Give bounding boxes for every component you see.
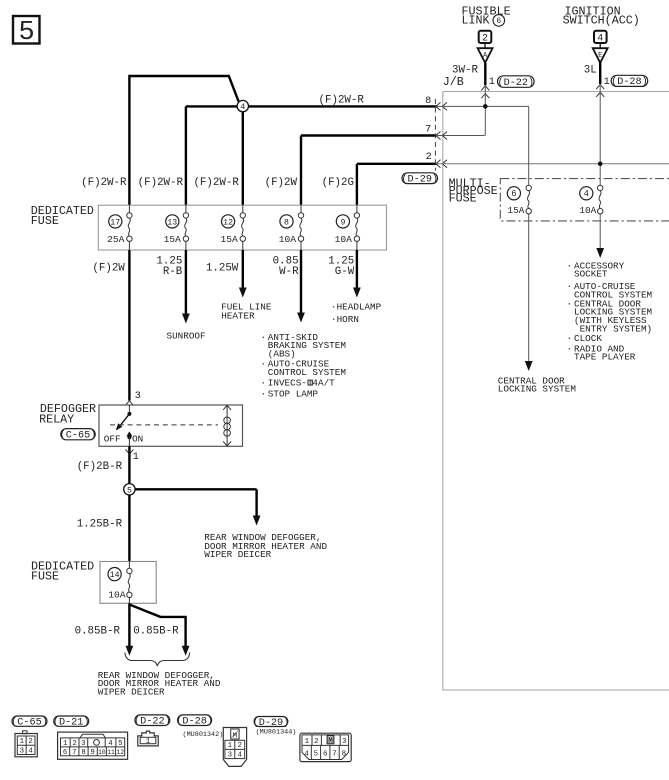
fuse 14 circle: [108, 568, 121, 581]
svg-text:E: E: [598, 52, 602, 60]
connector pinout oval D-21: [54, 716, 89, 726]
svg-text:1: 1: [63, 740, 68, 748]
svg-text:6: 6: [511, 189, 516, 199]
fuse 17 element 25A: [127, 213, 132, 218]
relay switch pivot: [127, 412, 131, 416]
svg-text:6: 6: [323, 751, 327, 759]
svg-text:FUSE: FUSE: [31, 570, 59, 584]
svg-text:(F)2W-R: (F)2W-R: [319, 94, 365, 106]
svg-text:WIPER DEICER: WIPER DEICER: [204, 549, 271, 560]
INVECS-II glyph: [308, 380, 313, 386]
svg-text:1: 1: [489, 77, 495, 88]
dedicated fuse box (bottom): [100, 562, 156, 604]
fuse 17 circle: [109, 215, 122, 228]
svg-text:M: M: [328, 738, 332, 746]
svg-text:1: 1: [20, 738, 25, 746]
svg-text:10: 10: [98, 749, 106, 756]
wire to J/B pin 2: [357, 163, 437, 165]
fuse 8 bottom stub: [300, 241, 302, 250]
svg-text:CONTROL SYSTEM: CONTROL SYSTEM: [268, 367, 346, 378]
wire fuse 8 to ABS etc: [300, 250, 302, 314]
arrow to ABS etc: [297, 313, 305, 323]
svg-text:·: ·: [567, 281, 573, 292]
arrow to fuel line heater: [239, 288, 247, 298]
svg-text:SWITCH(ACC): SWITCH(ACC): [563, 13, 640, 27]
wire fuse 14 down left branch: [128, 603, 130, 647]
svg-text:J/B: J/B: [443, 75, 464, 89]
connector oval D-22: [498, 76, 535, 88]
junction block J/B box: [443, 92, 669, 691]
svg-text:9: 9: [340, 218, 345, 227]
svg-text:3: 3: [342, 738, 346, 746]
fuse 8 circle: [280, 215, 293, 228]
svg-text:10A: 10A: [108, 590, 126, 601]
svg-text:7: 7: [332, 751, 336, 759]
svg-text:R-B: R-B: [163, 266, 183, 278]
svg-text:8: 8: [284, 218, 289, 227]
coil mark bottom: [223, 441, 231, 446]
dashed connector D-29 boundary line: [434, 99, 436, 171]
arrow to central door locking system: [525, 361, 533, 371]
fuse 9 bottom stub: [356, 241, 358, 250]
svg-text:·HORN: ·HORN: [331, 314, 359, 325]
svg-text:15A: 15A: [508, 205, 525, 216]
wire down to fuse 6: [528, 106, 530, 185]
connector pinout oval D-28: [178, 715, 212, 726]
svg-text:ON: ON: [132, 433, 143, 444]
svg-text:SOCKET: SOCKET: [574, 269, 608, 280]
arrow to sunroof: [182, 314, 190, 324]
arrow right to rear window defogger: [182, 646, 190, 656]
connector D-21 pinout: [58, 732, 128, 759]
connector C-65 pinout: [23, 731, 27, 734]
svg-text:11: 11: [107, 749, 115, 756]
svg-text:10A: 10A: [279, 234, 297, 245]
svg-text:3: 3: [81, 740, 85, 748]
svg-text:6: 6: [496, 17, 501, 26]
multi-purpose fuse dash-dot box: [500, 179, 669, 221]
wire branch down: [255, 489, 257, 517]
svg-text:2: 2: [72, 740, 76, 748]
wire from fuse 13 up to junction 4: [185, 106, 187, 205]
arrow to headlamp and horn: [353, 288, 361, 298]
svg-text:·: ·: [261, 332, 267, 343]
connector oval C-65: [61, 429, 95, 440]
svg-text:(F)2W-R: (F)2W-R: [138, 177, 184, 189]
wire inside J/B from D-22 down: [484, 87, 486, 136]
entry mark relay pin 3: [125, 401, 133, 406]
svg-text:17: 17: [110, 218, 120, 227]
svg-text:RELAY: RELAY: [39, 412, 74, 426]
fuse 8 element 10A: [298, 213, 303, 218]
fuse 12 bottom stub: [242, 241, 244, 250]
svg-text:·: ·: [261, 378, 267, 389]
exit mark relay pin 1: [125, 449, 133, 454]
fuse 13 top stub: [185, 205, 187, 213]
svg-text:0.85B-R: 0.85B-R: [133, 626, 179, 638]
connector oval D-29 at J/B: [402, 173, 438, 184]
fuse 13 bottom stub: [185, 241, 187, 250]
wire junction 4 down to fuse 12: [242, 112, 244, 206]
relay internal stub top: [128, 405, 130, 414]
svg-text:8: 8: [81, 749, 85, 757]
svg-text:3: 3: [228, 751, 232, 759]
junction dot pin2/D-28: [598, 162, 603, 167]
svg-text:·: ·: [567, 343, 573, 354]
svg-text:4: 4: [304, 751, 309, 759]
wire fuse 17 to defogger relay: [128, 250, 130, 401]
svg-text:M: M: [233, 732, 237, 740]
connector D-28 pinout: [223, 728, 246, 767]
wire inside J/B from D-28 to fuse 4: [599, 86, 601, 185]
arrow left to rear window defogger: [126, 646, 134, 656]
entry mark pin 7 outer: [436, 132, 441, 140]
wire from fuse 17 up and across to junction 4: [129, 76, 238, 206]
svg-text:1: 1: [604, 77, 610, 88]
connector D-22 pinout: [138, 731, 158, 746]
svg-text:2: 2: [314, 738, 318, 746]
svg-text:1.25W: 1.25W: [206, 262, 239, 274]
svg-text:INVECS- 4A/T: INVECS- 4A/T: [268, 378, 335, 389]
svg-text:13: 13: [167, 218, 177, 227]
bus wire pin8 to fuse 6 inside J/B: [437, 105, 529, 107]
relay coil: [226, 405, 228, 446]
svg-text:(MU801342): (MU801342): [183, 731, 224, 739]
svg-text:2: 2: [426, 152, 432, 163]
wire fuse 4 to accessory loads: [599, 214, 601, 249]
arrow to accessory loads: [596, 248, 604, 258]
svg-text:(F)2W: (F)2W: [265, 177, 298, 189]
svg-text:FUSE: FUSE: [449, 192, 477, 206]
svg-text:1: 1: [305, 738, 310, 746]
page number box 5: [13, 16, 40, 44]
wire fuse 6 to central door locking system: [528, 214, 530, 362]
svg-text:14: 14: [110, 571, 120, 580]
fuse 12 circle: [222, 215, 235, 228]
wire junction4 left arm: [186, 105, 237, 107]
svg-text:(D-29): (D-29): [253, 717, 290, 729]
relay switch blade arrowhead: [116, 423, 123, 430]
svg-text:(D-21): (D-21): [53, 717, 90, 729]
svg-text:10A: 10A: [579, 205, 596, 216]
svg-text:(F)2W-R: (F)2W-R: [81, 177, 127, 189]
fuse 9 element 10A: [354, 213, 359, 218]
entry mark D-28 outer: [596, 85, 604, 90]
svg-text:FUSE: FUSE: [31, 214, 59, 228]
svg-text:G-W: G-W: [335, 266, 355, 278]
wire from fuse 8 up: [300, 136, 302, 206]
wire 3W-R from triangle A to J/B: [484, 63, 486, 85]
svg-text:4: 4: [584, 189, 589, 199]
svg-text:(F)2B-R: (F)2B-R: [77, 461, 123, 473]
fuse 12 element 15A: [240, 213, 245, 218]
svg-text:·: ·: [567, 260, 573, 271]
entry mark pin 8 outer: [436, 102, 441, 110]
entry mark pin 7 inner: [442, 132, 447, 140]
svg-text:9: 9: [91, 749, 95, 757]
svg-text:TAPE PLAYER: TAPE PLAYER: [574, 352, 636, 363]
connector pinout oval D-22: [135, 715, 170, 726]
triangle terminal E: [593, 48, 608, 63]
svg-text:4: 4: [237, 751, 242, 759]
fuse 14 bottom stub: [128, 598, 130, 604]
defogger relay box: [99, 405, 243, 446]
svg-text:6: 6: [63, 749, 67, 757]
entry mark pin 8 inner: [442, 102, 447, 110]
svg-text:W-R: W-R: [279, 266, 299, 278]
svg-text:2: 2: [28, 738, 32, 746]
entry mark D-22 outer: [481, 86, 489, 91]
svg-text:12: 12: [223, 218, 233, 227]
svg-text:(D-29): (D-29): [401, 174, 438, 186]
junction dot pin8/D-22: [483, 104, 488, 109]
relay switch blade: [117, 414, 129, 430]
entry mark pin 2 inner: [442, 160, 447, 168]
svg-text:0.85B-R: 0.85B-R: [75, 626, 121, 638]
svg-text:5: 5: [314, 751, 318, 759]
fuse 14 top stub: [128, 562, 130, 569]
svg-text:STOP LAMP: STOP LAMP: [268, 389, 319, 400]
svg-text:7: 7: [425, 124, 431, 135]
svg-text:3: 3: [135, 391, 141, 402]
fuse 9 circle: [336, 215, 349, 228]
fuse 13 element 15A: [183, 213, 188, 218]
svg-text:4: 4: [28, 747, 33, 755]
svg-text:12: 12: [116, 749, 124, 756]
svg-text:OFF: OFF: [104, 433, 121, 444]
wire from fuse 9 up: [356, 164, 358, 206]
junction circle 5: [124, 484, 135, 495]
fuse 13 circle: [166, 215, 179, 228]
fuse 14 element 10A: [127, 568, 132, 573]
wire junction 5 branch right: [135, 488, 257, 490]
connector box 2 (fusible link): [479, 31, 492, 43]
fuse 17 top stub: [128, 205, 130, 213]
svg-text:(F)2W-R: (F)2W-R: [193, 177, 239, 189]
wire fuse 13 to sunroof: [185, 250, 187, 315]
svg-text:2: 2: [237, 742, 241, 750]
connector D-29 pinout: [300, 733, 351, 761]
fuse 6 element 15A: [526, 185, 531, 190]
wire box4 to triangle E: [599, 43, 601, 48]
svg-text:LOCKING SYSTEM: LOCKING SYSTEM: [498, 384, 576, 395]
fuse 4 circle in J/B: [580, 187, 593, 200]
svg-text:8: 8: [425, 96, 431, 107]
svg-text:1: 1: [133, 452, 139, 463]
fuse 4 element 10A: [598, 185, 603, 190]
connector pinout oval D-29: [254, 717, 288, 727]
svg-text:·: ·: [261, 389, 267, 400]
coil mark top: [223, 405, 231, 410]
svg-text:·HEADLAMP: ·HEADLAMP: [331, 301, 382, 312]
svg-text:(C-65): (C-65): [11, 717, 48, 729]
wire fuse 14 right branch: [129, 605, 185, 648]
arrow to rear window defogger (upper): [253, 516, 261, 526]
svg-text:4: 4: [240, 103, 245, 112]
svg-text:·: ·: [567, 298, 573, 309]
svg-text:15A: 15A: [221, 234, 239, 245]
dedicated fuse box (top): [98, 205, 386, 250]
svg-text:(C-65): (C-65): [60, 430, 97, 442]
svg-text:5: 5: [18, 18, 34, 48]
svg-text:WIPER DEICER: WIPER DEICER: [98, 687, 165, 698]
svg-text:25A: 25A: [107, 234, 125, 245]
svg-text:(F)2W: (F)2W: [92, 262, 125, 274]
wire to J/B pin 7: [301, 134, 437, 136]
wire fuse 12 to fuel line heater: [242, 250, 244, 289]
svg-text:5: 5: [127, 486, 132, 495]
svg-text:7: 7: [72, 749, 76, 757]
triangle terminal A: [478, 48, 493, 63]
svg-text:(D-28): (D-28): [611, 76, 648, 88]
svg-text:LINK: LINK: [462, 13, 490, 27]
svg-text:15A: 15A: [164, 234, 182, 245]
fuse 6 circle in J/B: [507, 187, 520, 200]
connector box 4 (ignition switch): [594, 31, 607, 43]
wire junction 4 to J/B pin 8: [249, 105, 437, 107]
svg-text:1: 1: [228, 742, 233, 750]
wire 3L from triangle E to J/B: [599, 62, 601, 84]
fuse 8 top stub: [300, 205, 302, 213]
relay internal stub bottom: [128, 437, 130, 446]
svg-text:4: 4: [108, 740, 113, 748]
fuse 12 top stub: [242, 205, 244, 213]
bus wire pin2 across J/B: [437, 163, 669, 165]
svg-text:(D-22): (D-22): [134, 716, 171, 728]
wire fuse 9 to headlamp/horn: [356, 250, 358, 289]
entry mark D-22 inner: [481, 94, 489, 99]
svg-text:3: 3: [20, 747, 24, 755]
svg-text:(MU801344): (MU801344): [256, 729, 297, 737]
relay ON contact: [126, 431, 132, 436]
svg-text:HEATER: HEATER: [221, 311, 255, 322]
wire junction 5 down to dedicated fuse 14: [128, 495, 130, 562]
entry mark D-28 inner: [596, 92, 604, 97]
wire box2 to triangle A: [484, 43, 486, 48]
svg-text:(D-28): (D-28): [176, 716, 213, 728]
relay dashed link: [110, 424, 218, 426]
circled 6 of fusible link: [493, 15, 505, 27]
bus wire pin7 inside J/B: [437, 135, 485, 137]
junction circle 4: [237, 100, 248, 111]
svg-text:1.25B-R: 1.25B-R: [77, 519, 123, 531]
under-brace: [125, 653, 190, 666]
svg-text:SUNROOF: SUNROOF: [167, 331, 206, 342]
svg-text:5: 5: [118, 740, 122, 748]
svg-text:8: 8: [342, 751, 346, 759]
svg-text:10A: 10A: [335, 234, 353, 245]
svg-text:·: ·: [261, 359, 267, 370]
svg-text:1: 1: [146, 738, 151, 746]
svg-text:(F)2G: (F)2G: [322, 177, 354, 189]
svg-text:3L: 3L: [584, 64, 597, 76]
connector oval D-28: [611, 75, 648, 86]
fuse 9 top stub: [356, 205, 358, 213]
svg-text:(D-22): (D-22): [497, 77, 534, 89]
wire relay to junction 5: [128, 446, 130, 483]
fuse 17 bottom stub: [128, 241, 130, 250]
entry mark pin 2 outer: [436, 160, 441, 168]
connector pinout oval C-65: [12, 716, 47, 726]
